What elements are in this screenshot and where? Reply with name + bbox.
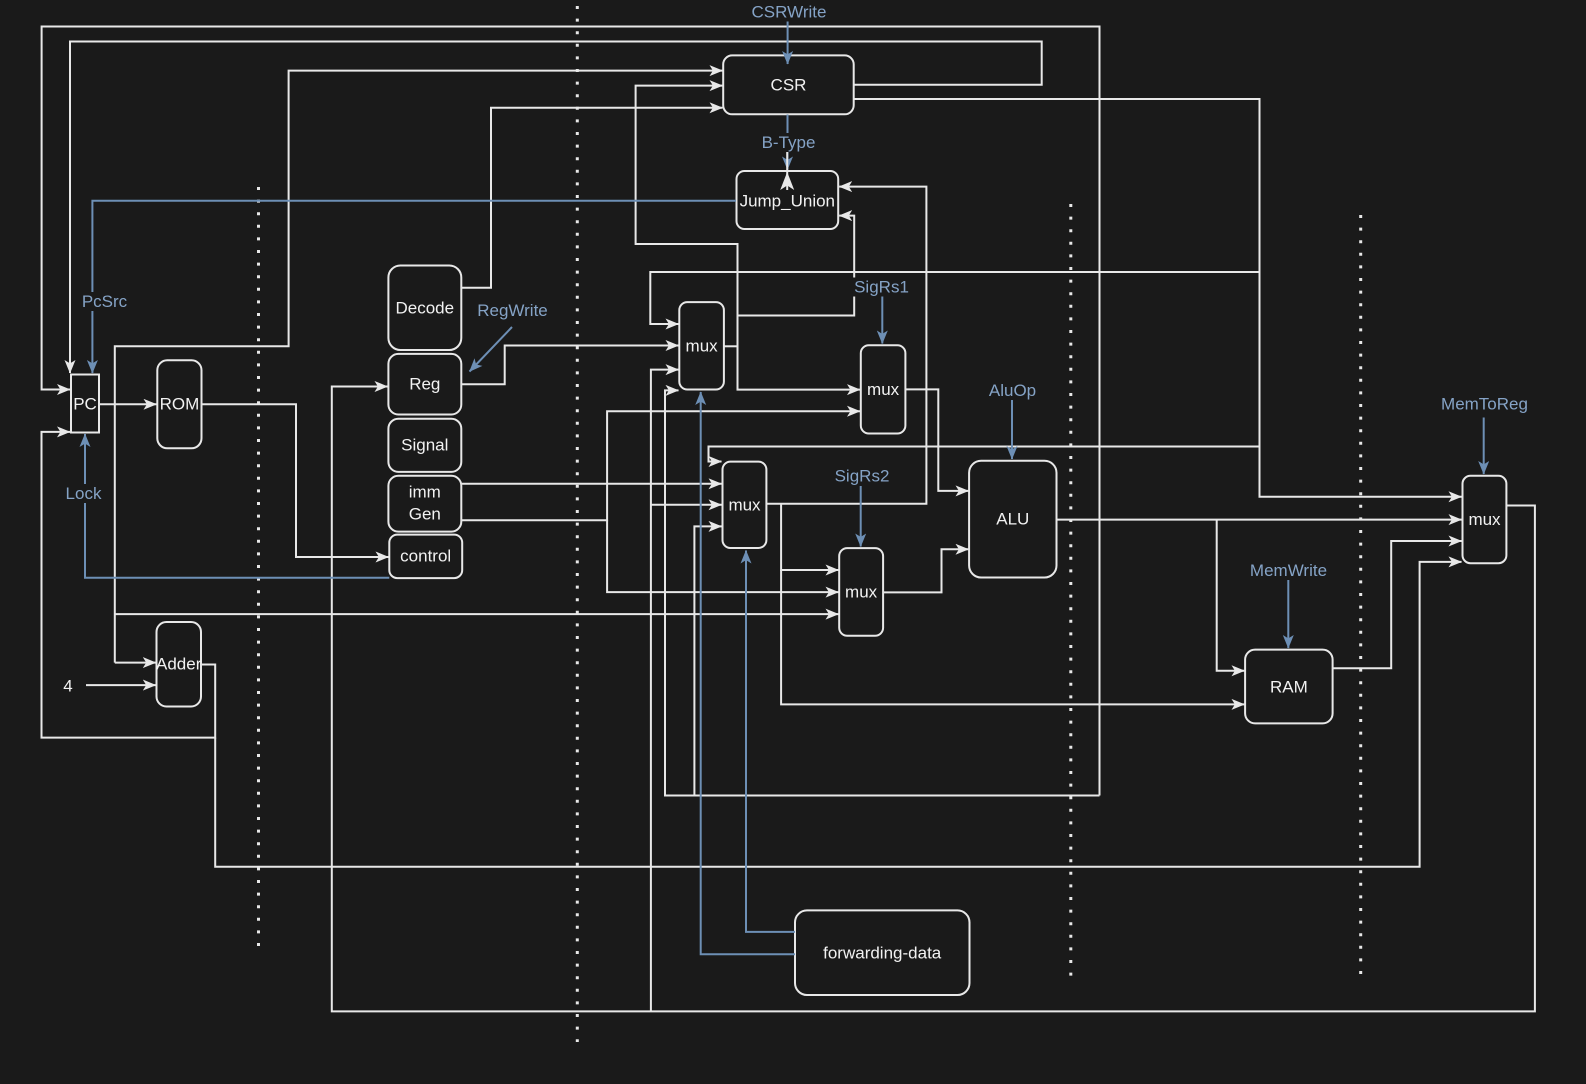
svg-text:CSRWrite: CSRWrite xyxy=(752,3,827,22)
svg-text:ALU: ALU xyxy=(996,510,1029,529)
svg-text:MemToReg: MemToReg xyxy=(1441,395,1528,414)
svg-text:PC: PC xyxy=(73,395,97,414)
svg-text:SigRs1: SigRs1 xyxy=(854,278,909,297)
svg-text:forwarding-data: forwarding-data xyxy=(823,944,942,963)
svg-text:imm: imm xyxy=(409,483,441,502)
svg-text:CSR: CSR xyxy=(771,76,807,95)
svg-text:ROM: ROM xyxy=(160,395,200,414)
svg-text:Signal: Signal xyxy=(401,436,448,455)
svg-text:control: control xyxy=(400,547,451,566)
svg-text:Gen: Gen xyxy=(409,505,441,524)
svg-text:Adder: Adder xyxy=(156,655,202,674)
svg-text:Jump_Union: Jump_Union xyxy=(740,192,835,211)
svg-text:mux: mux xyxy=(728,496,761,515)
svg-text:SigRs2: SigRs2 xyxy=(835,467,890,486)
svg-text:AluOp: AluOp xyxy=(989,381,1036,400)
svg-text:RegWrite: RegWrite xyxy=(477,301,548,320)
svg-text:4: 4 xyxy=(63,677,72,696)
svg-text:Reg: Reg xyxy=(409,375,440,394)
svg-text:B-Type: B-Type xyxy=(762,133,816,152)
svg-text:PcSrc: PcSrc xyxy=(82,292,128,311)
svg-text:RAM: RAM xyxy=(1270,678,1308,697)
svg-text:Decode: Decode xyxy=(395,299,454,318)
svg-text:MemWrite: MemWrite xyxy=(1250,561,1327,580)
svg-text:Lock: Lock xyxy=(66,484,102,503)
svg-text:mux: mux xyxy=(845,583,878,602)
svg-text:mux: mux xyxy=(867,380,900,399)
svg-text:mux: mux xyxy=(1468,510,1501,529)
svg-text:mux: mux xyxy=(686,337,719,356)
